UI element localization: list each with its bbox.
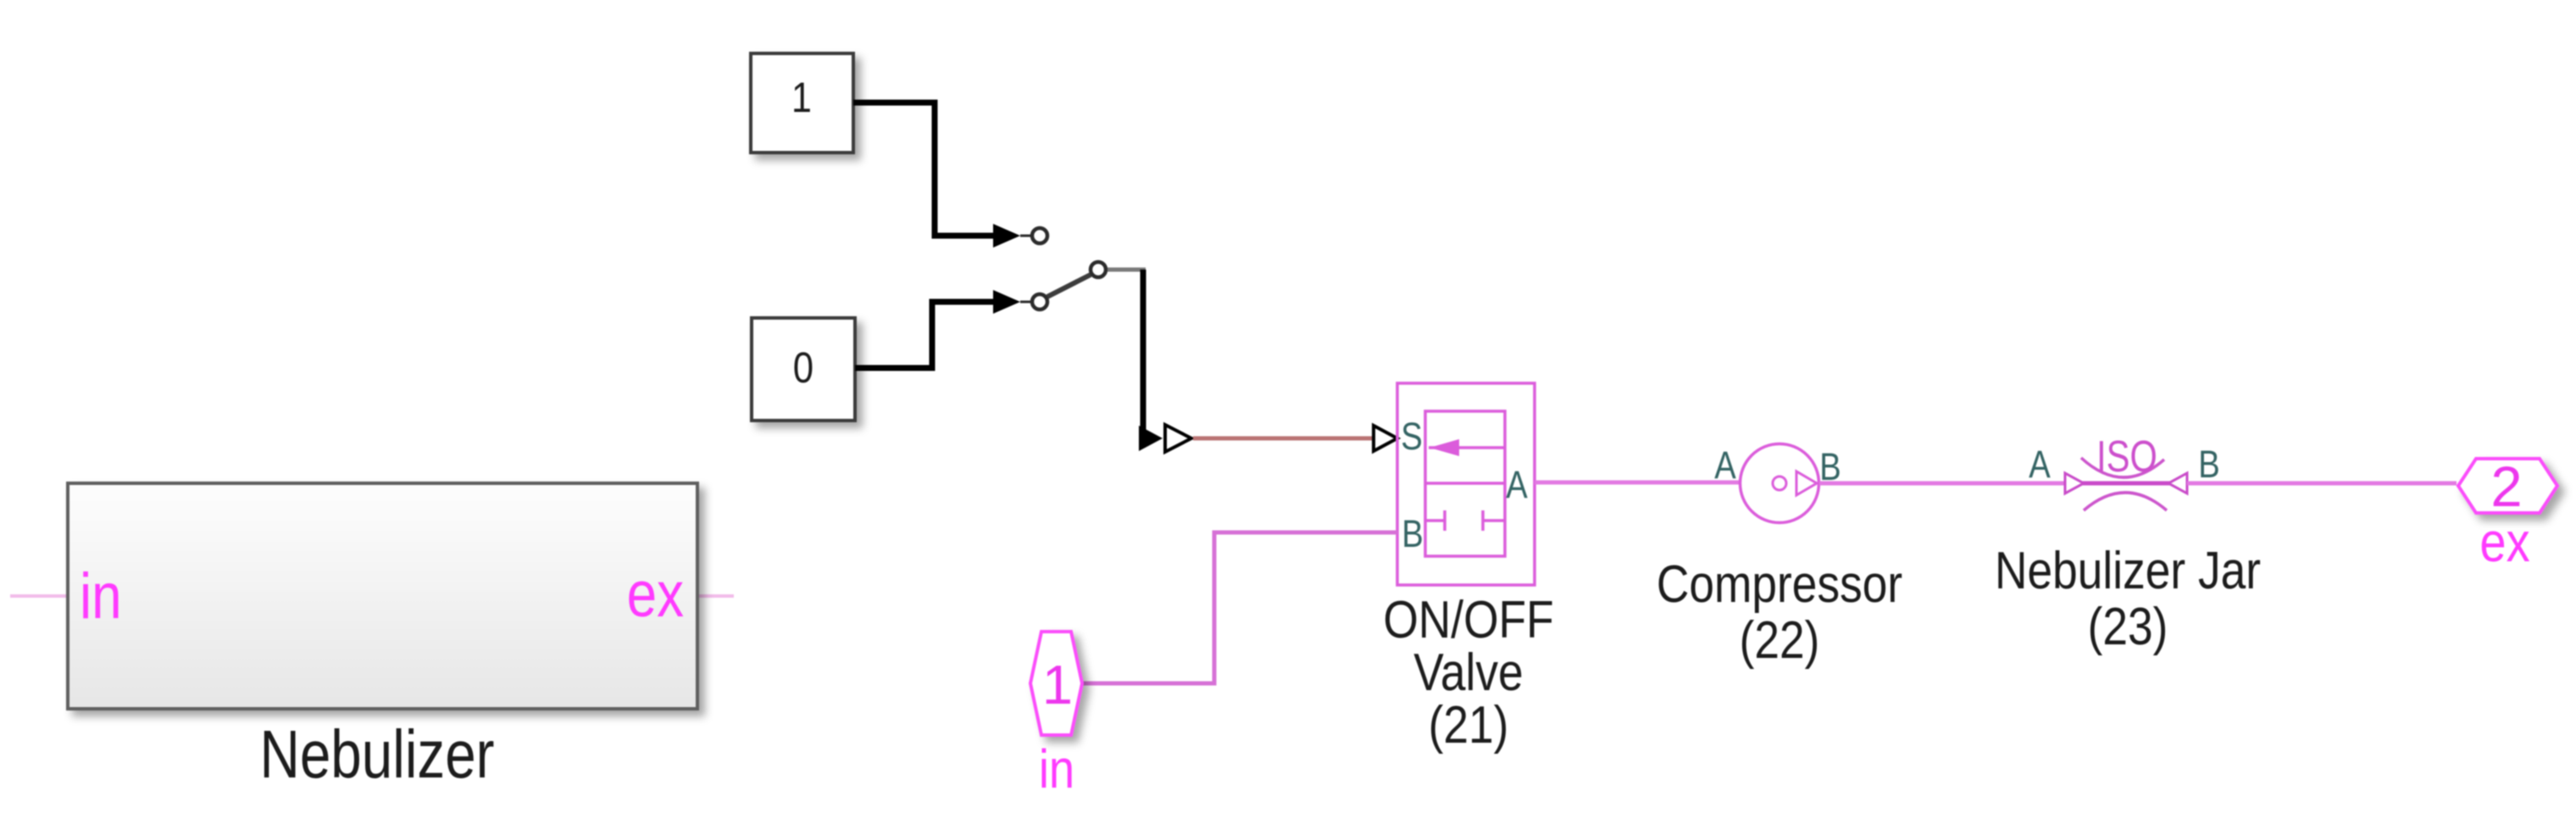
svg-text:1: 1: [1042, 654, 1073, 716]
svg-text:ISO: ISO: [2096, 432, 2157, 482]
svg-text:B: B: [1402, 512, 1424, 555]
svg-text:0: 0: [793, 344, 813, 393]
svg-text:A: A: [1506, 463, 1528, 506]
svg-text:Nebulizer: Nebulizer: [259, 716, 494, 793]
svg-text:ex: ex: [627, 558, 684, 631]
svg-text:B: B: [2198, 443, 2220, 486]
svg-text:A: A: [2029, 443, 2051, 486]
svg-text:Compressor: Compressor: [1657, 555, 1902, 614]
svg-text:ex: ex: [2479, 511, 2529, 573]
svg-text:in: in: [80, 560, 122, 632]
svg-text:(23): (23): [2088, 598, 2168, 656]
svg-text:ON/OFF: ON/OFF: [1383, 591, 1553, 649]
svg-text:Nebulizer Jar: Nebulizer Jar: [1995, 542, 2261, 600]
svg-text:1: 1: [791, 74, 812, 121]
svg-text:A: A: [1714, 443, 1736, 487]
svg-text:(21): (21): [1429, 696, 1509, 755]
svg-text:2: 2: [2490, 455, 2522, 519]
svg-text:S: S: [1401, 415, 1423, 458]
svg-text:(22): (22): [1740, 611, 1820, 670]
svg-text:in: in: [1039, 738, 1074, 799]
svg-text:Valve: Valve: [1413, 643, 1523, 702]
